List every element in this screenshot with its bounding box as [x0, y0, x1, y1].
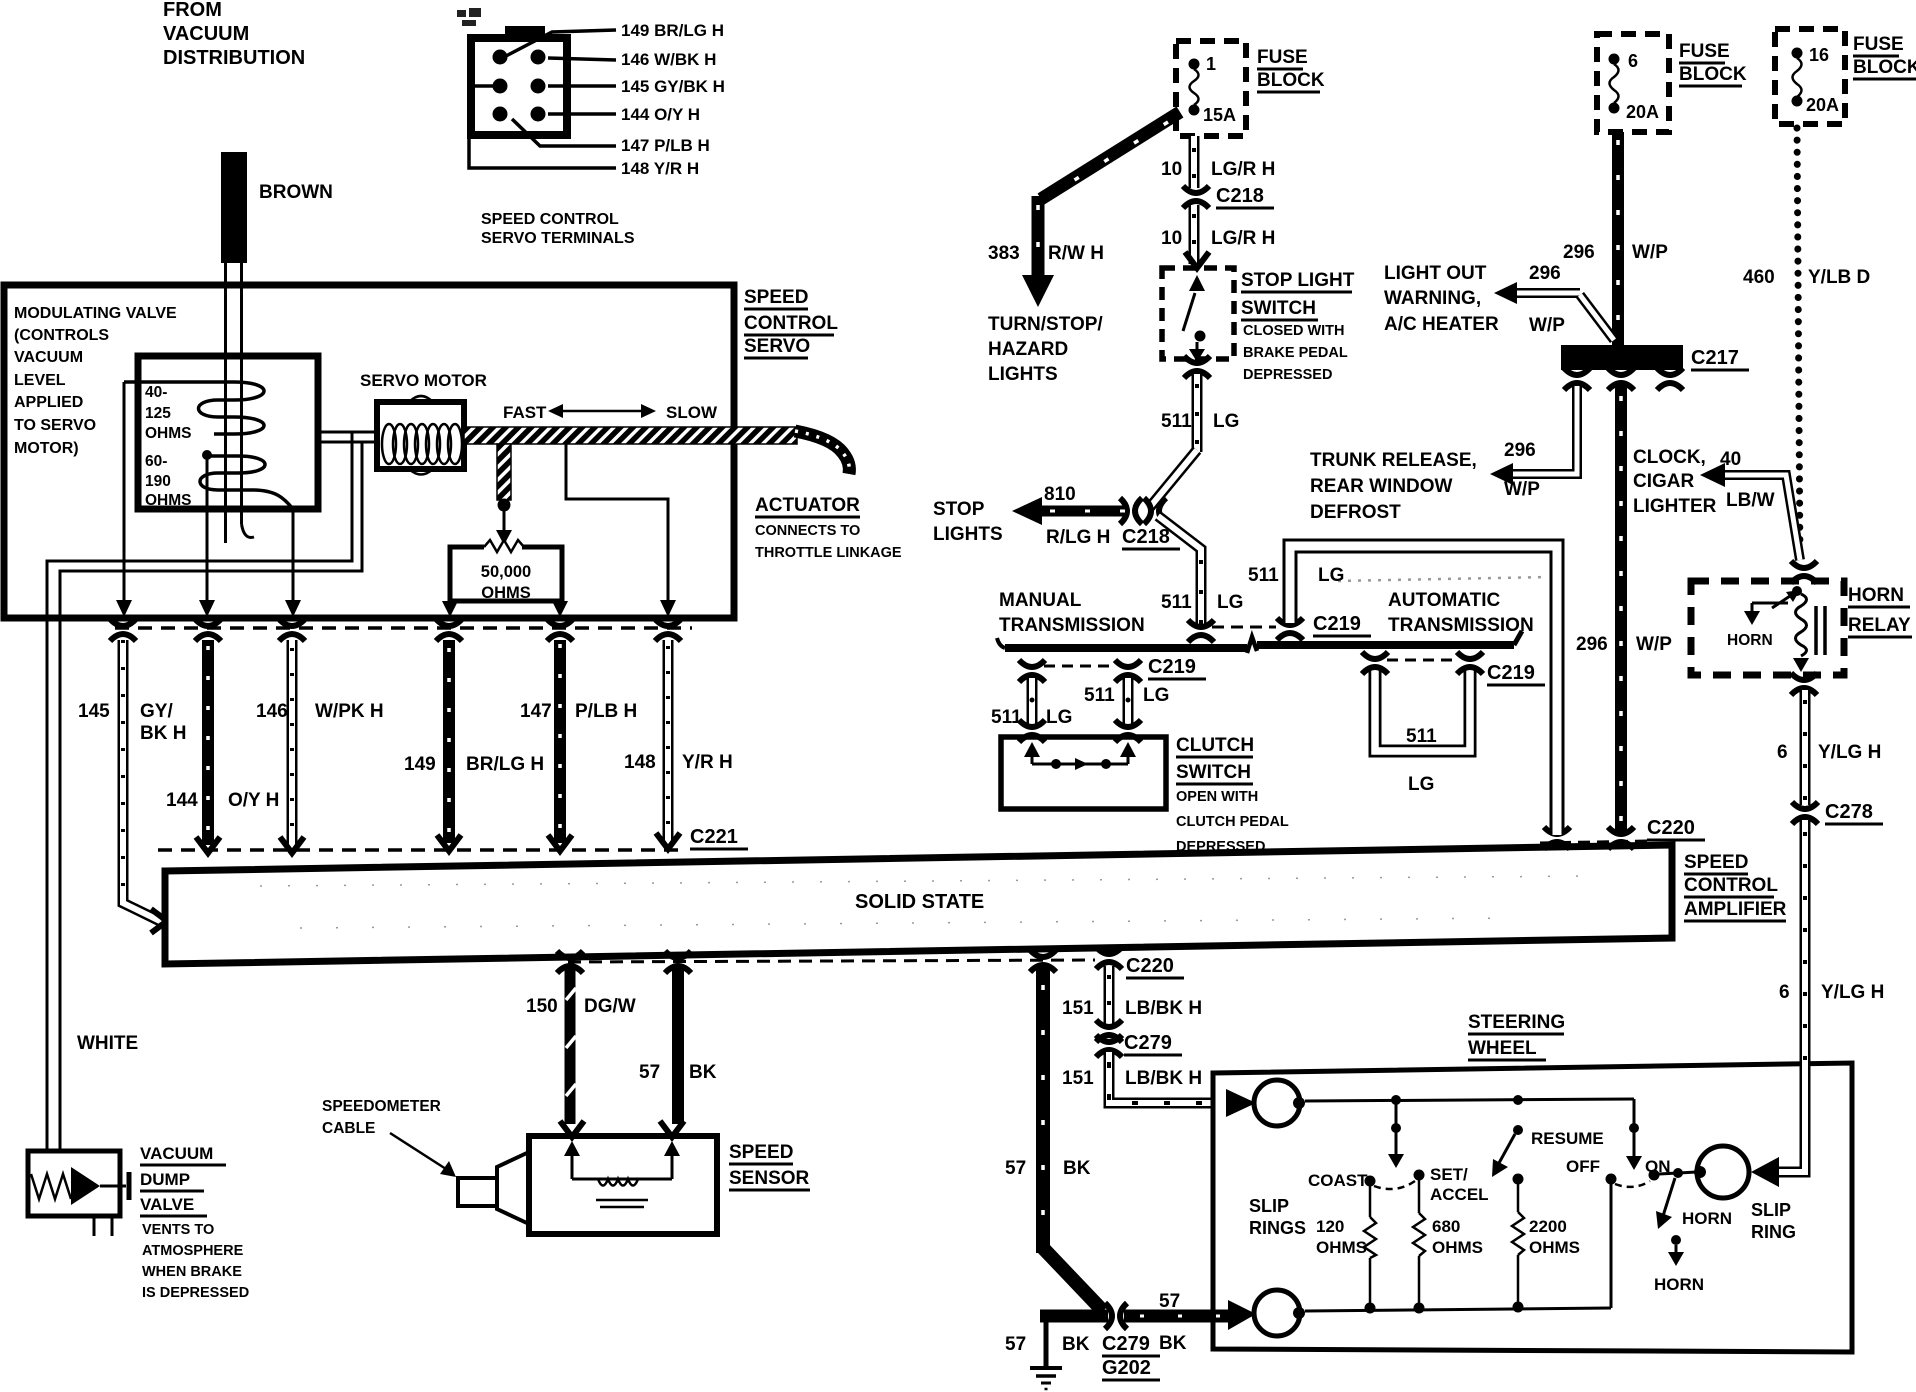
svg-text:57: 57 — [1159, 1291, 1180, 1312]
wire 10 LG/R upper — [1189, 136, 1200, 188]
amplifier entry w149 — [437, 835, 461, 851]
svg-text:OHMS: OHMS — [481, 584, 531, 602]
amplifier entry w146 — [280, 837, 304, 853]
wire 149 BR/LG H — [443, 640, 455, 843]
label OPEN WITH CLUTCH PEDAL DEPRESSED — [1176, 789, 1289, 855]
right slip ring — [1694, 1146, 1749, 1198]
svg-text:C219: C219 — [1313, 613, 1361, 635]
clutch switch contacts — [1024, 742, 1136, 770]
svg-text:HORN: HORN — [1682, 1209, 1732, 1228]
svg-text:CONNECTS TO: CONNECTS TO — [755, 523, 860, 539]
labels 460 Y/LB D — [1743, 267, 1870, 288]
C221 dashed connector line — [115, 626, 692, 630]
wire 145 inside servo — [123, 382, 126, 601]
svg-text:W/P: W/P — [1636, 634, 1672, 655]
svg-text:SPEED: SPEED — [1684, 852, 1748, 873]
C220 bowtie w151 — [1096, 947, 1122, 969]
svg-text:383: 383 — [988, 243, 1020, 264]
C219 dashed segment — [1212, 626, 1276, 629]
amplifier noise speckle — [260, 876, 1600, 928]
svg-text:6: 6 — [1779, 982, 1790, 1003]
C221 top dashed at amplifier — [158, 848, 680, 852]
top rail — [1305, 1095, 1634, 1105]
svg-text:OHMS: OHMS — [1316, 1238, 1367, 1257]
svg-text:SERVO TERMINALS: SERVO TERMINALS — [481, 230, 635, 247]
svg-text:60-: 60- — [145, 453, 167, 470]
svg-text:O/Y H: O/Y H — [228, 790, 279, 811]
modulating valve inner box — [138, 356, 318, 509]
svg-text:RING: RING — [1751, 1222, 1796, 1242]
labels 40 LB/W — [1720, 449, 1775, 511]
svg-text:511: 511 — [1161, 411, 1192, 432]
svg-text:CLUTCH: CLUTCH — [1176, 735, 1254, 756]
pin 146 top-right — [531, 50, 546, 65]
label C220 bottom — [1126, 955, 1184, 978]
label 511 LG upper — [1161, 411, 1239, 432]
arrow into top slip ring — [1226, 1089, 1256, 1117]
top slip ring — [1254, 1080, 1305, 1126]
wire 296 to trunk release — [1490, 386, 1577, 485]
svg-text:120: 120 — [1316, 1217, 1344, 1236]
svg-text:CIGAR: CIGAR — [1633, 471, 1695, 492]
svg-text:149 BR/LG H: 149 BR/LG H — [621, 21, 724, 40]
svg-text:OPEN WITH: OPEN WITH — [1176, 789, 1258, 805]
label C220 top — [1647, 817, 1705, 840]
steering wheel box — [1213, 1063, 1852, 1352]
wire 57 BK diagonal — [1043, 1248, 1103, 1311]
labels 10 LG/R H — [1161, 159, 1275, 249]
fuse block 2 — [1597, 34, 1669, 132]
label STOP LIGHT SWITCH — [1241, 270, 1355, 319]
svg-text:57: 57 — [639, 1062, 660, 1083]
labels 296 W/P trunk — [1504, 440, 1540, 500]
svg-text:VALVE: VALVE — [140, 1195, 194, 1214]
labels 151 LB/BK H — [1062, 998, 1202, 1089]
speedometer cable cone — [458, 1152, 529, 1224]
svg-text:P/LB H: P/LB H — [575, 701, 637, 722]
wire 150 DG/W — [566, 968, 576, 1124]
wire 511 below switch — [1192, 374, 1203, 452]
label C278 — [1825, 801, 1883, 824]
svg-text:6: 6 — [1777, 742, 1788, 763]
modulating valve coil lower — [200, 456, 293, 509]
C221 bowtie w146 — [279, 619, 305, 641]
wire to label 147 — [512, 119, 616, 146]
svg-text:FROM: FROM — [163, 0, 222, 21]
svg-text:151: 151 — [1062, 998, 1094, 1019]
label FUSE BLOCK 3 — [1853, 34, 1916, 78]
label SPEED CONTROL AMPLIFIER — [1684, 852, 1787, 920]
wire 151 upper — [1104, 966, 1115, 1024]
servo motor — [377, 402, 464, 469]
svg-text:CLOSED WITH: CLOSED WITH — [1243, 323, 1345, 339]
svg-text:C279: C279 — [1102, 1333, 1150, 1355]
fuse 2 element — [1609, 54, 1620, 114]
svg-text:C217: C217 — [1691, 347, 1739, 369]
svg-text:HORN: HORN — [1848, 585, 1904, 606]
fuse 3 element — [1792, 48, 1803, 107]
speed control servo box — [4, 285, 734, 618]
svg-text:SPEED: SPEED — [729, 1142, 793, 1163]
wire to label 149 — [506, 30, 616, 56]
svg-text:296: 296 — [1563, 242, 1595, 263]
svg-text:Y/LG H: Y/LG H — [1821, 982, 1884, 1003]
automatic transmission U loop — [1375, 666, 1470, 751]
horn stub arrow — [1668, 1235, 1684, 1266]
svg-text:LG: LG — [1213, 411, 1239, 432]
junction dot — [202, 450, 212, 460]
svg-text:Y/R H: Y/R H — [682, 752, 733, 773]
horn relay armature — [1744, 586, 1802, 625]
wire to label 146 — [548, 58, 616, 60]
terminal labels — [621, 21, 725, 178]
ground G202 symbol — [1030, 1368, 1062, 1389]
dump valve plunger tip — [71, 1167, 100, 1205]
labels 810 R/LG H — [1044, 484, 1110, 548]
C279 bowtie on 57 wire — [1105, 1303, 1127, 1329]
wire 296 fuse2 to C217 — [1612, 132, 1624, 345]
svg-text:511: 511 — [1248, 565, 1279, 586]
actuator rod (hatched) — [464, 427, 797, 444]
stop light switch box — [1162, 268, 1234, 359]
svg-text:CABLE: CABLE — [322, 1120, 375, 1137]
svg-text:144 O/Y H: 144 O/Y H — [621, 105, 700, 124]
svg-text:2200: 2200 — [1529, 1217, 1567, 1236]
svg-text:146: 146 — [256, 701, 288, 722]
label C219 top — [1313, 613, 1371, 636]
labels 511 LG auto — [1406, 726, 1437, 795]
COAST/SET branch drop — [1388, 1100, 1404, 1168]
svg-text:DISTRIBUTION: DISTRIBUTION — [163, 47, 305, 69]
svg-text:460: 460 — [1743, 267, 1775, 288]
svg-text:16: 16 — [1809, 45, 1829, 65]
label AUTOMATIC TRANSMISSION — [1388, 590, 1534, 636]
wire to label 145 — [548, 84, 616, 88]
svg-text:W/P: W/P — [1632, 242, 1668, 263]
svg-text:DEPRESSED: DEPRESSED — [1243, 367, 1332, 383]
arrow into right slip ring — [1751, 1157, 1779, 1187]
labels 6 20A — [1626, 51, 1659, 122]
wire 810 arrow to stop lights — [1012, 497, 1125, 525]
amplifier entry w145 side — [151, 909, 167, 933]
labels 1 15A — [1203, 54, 1236, 125]
svg-text:G202: G202 — [1102, 1357, 1151, 1379]
wire 147 P/LB H — [554, 640, 566, 843]
label MANUAL TRANSMISSION — [999, 590, 1145, 636]
C220 bottom dashed — [568, 960, 1095, 962]
svg-text:FUSE: FUSE — [1257, 47, 1308, 68]
svg-text:REAR WINDOW: REAR WINDOW — [1310, 476, 1453, 497]
C278 bowtie — [1792, 802, 1818, 824]
wire 57 BK right vertical — [1036, 968, 1050, 1253]
labels OFF ON — [1566, 1157, 1671, 1176]
label CLOCK CIGAR LIGHTER — [1633, 447, 1717, 517]
off-on wiper dashed — [1615, 1181, 1650, 1187]
ON branch drop — [1626, 1099, 1642, 1170]
svg-text:MOTOR): MOTOR) — [14, 440, 79, 457]
coast-set wiper dashed — [1374, 1181, 1415, 1189]
C221 bowtie w149 — [436, 619, 462, 641]
svg-text:20A: 20A — [1626, 102, 1659, 122]
svg-text:147: 147 — [520, 701, 552, 722]
svg-text:125: 125 — [145, 405, 171, 422]
svg-text:C219: C219 — [1148, 656, 1196, 678]
label FUSE BLOCK 1 — [1257, 47, 1325, 91]
horn relay bowtie bottom — [1791, 673, 1817, 695]
svg-text:FUSE: FUSE — [1679, 41, 1730, 62]
svg-text:SERVO: SERVO — [744, 336, 810, 357]
svg-text:296: 296 — [1529, 263, 1561, 284]
wire 296 arrow to light out warning — [1494, 282, 1614, 340]
labels 6 Y/LG H lower — [1779, 982, 1884, 1003]
svg-text:LG: LG — [1143, 685, 1169, 706]
SET/ACCEL contact — [1414, 1170, 1425, 1181]
label MODULATING VALVE paragraph — [14, 305, 177, 457]
C217 bowties — [1564, 368, 1683, 390]
svg-text:CLOCK,: CLOCK, — [1633, 447, 1706, 468]
svg-text:SERVO MOTOR: SERVO MOTOR — [360, 371, 487, 390]
svg-text:MANUAL: MANUAL — [999, 590, 1082, 611]
svg-text:HORN: HORN — [1654, 1275, 1704, 1294]
svg-text:APPLIED: APPLIED — [14, 394, 83, 411]
C219 auto bowties and dashes — [1362, 652, 1483, 674]
svg-text:10: 10 — [1161, 228, 1182, 249]
svg-text:DEPRESSED: DEPRESSED — [1176, 839, 1265, 855]
svg-text:W/P: W/P — [1529, 315, 1565, 336]
wire 57 BK left — [672, 968, 684, 1124]
wire 6 Y/LG upper — [1800, 690, 1811, 805]
svg-text:C221: C221 — [690, 826, 738, 848]
speed control amplifier box SOLID STATE — [165, 845, 1672, 964]
label CLUTCH SWITCH — [1176, 735, 1254, 783]
wire 511 from C218 to C219 — [1158, 516, 1201, 624]
C279 double bowtie — [1096, 1020, 1122, 1057]
label SPEED CONTROL SERVO — [744, 287, 838, 357]
svg-text:TURN/STOP/: TURN/STOP/ — [988, 314, 1103, 335]
horn relay coil exit arrow — [1793, 658, 1809, 672]
bowtie C219 right — [1277, 618, 1303, 640]
svg-text:145: 145 — [78, 701, 110, 722]
svg-text:SLIP: SLIP — [1249, 1196, 1289, 1216]
dump valve spring — [31, 1174, 71, 1199]
label C219 manual — [1148, 656, 1206, 679]
svg-text:BLOCK: BLOCK — [1679, 64, 1747, 85]
wire labels row 2 — [404, 752, 733, 775]
wire 146 W/PK H — [287, 640, 298, 845]
svg-text:MODULATING VALVE: MODULATING VALVE — [14, 305, 177, 322]
labels 511 LG right — [1248, 565, 1344, 586]
arm end dot — [498, 499, 511, 512]
pin 148 mid-left — [493, 79, 508, 94]
label VENTS TO ATMOSPHERE WHEN BRAKE IS DEPRESSED — [142, 1222, 249, 1301]
label C218 lower — [1122, 526, 1180, 549]
svg-text:SOLID STATE: SOLID STATE — [855, 891, 984, 913]
svg-text:57: 57 — [1005, 1158, 1026, 1179]
svg-text:LB/W: LB/W — [1726, 490, 1775, 511]
wire 511 diagonal to C218 — [1150, 450, 1197, 507]
svg-text:OHMS: OHMS — [1529, 1238, 1580, 1257]
svg-text:LIGHTS: LIGHTS — [988, 364, 1058, 385]
svg-text:C218: C218 — [1122, 526, 1170, 548]
svg-text:RESUME: RESUME — [1531, 1129, 1604, 1148]
labels 150 DG/W — [526, 996, 636, 1017]
label SPEED SENSOR — [729, 1142, 810, 1189]
arrow to 50000 ohms — [496, 511, 512, 545]
C218 inline double bowtie — [1120, 498, 1166, 524]
wire 10 LG/R lower — [1189, 205, 1200, 264]
svg-text:Y/LG H: Y/LG H — [1818, 742, 1881, 763]
svg-text:150: 150 — [526, 996, 558, 1017]
wire 383 diagonal — [1041, 112, 1180, 199]
ground drop wire — [1044, 1316, 1049, 1368]
speedometer pointer arrow — [390, 1133, 456, 1177]
pin 145 mid-right — [531, 79, 546, 94]
label SPEED CONTROL SERVO TERMINALS — [481, 211, 635, 247]
svg-text:FAST: FAST — [503, 403, 547, 422]
svg-text:DEFROST: DEFROST — [1310, 502, 1401, 523]
label HORN RELAY — [1848, 585, 1911, 636]
svg-text:40-: 40- — [145, 384, 167, 401]
svg-text:(CONTROLS: (CONTROLS — [14, 327, 109, 344]
svg-text:810: 810 — [1044, 484, 1076, 505]
svg-text:VENTS TO: VENTS TO — [142, 1222, 214, 1238]
stop light switch contacts — [1183, 275, 1206, 362]
resistor 680 ohms — [1413, 1180, 1425, 1306]
svg-text:W/PK H: W/PK H — [315, 701, 384, 722]
wire 149 inside servo — [442, 601, 458, 617]
label SET/ACCEL — [1430, 1165, 1489, 1204]
svg-text:LIGHTER: LIGHTER — [1633, 496, 1717, 517]
label STOP LIGHTS — [933, 499, 1003, 545]
wire 151 lower to steering wheel — [1109, 1052, 1213, 1103]
svg-text:AUTOMATIC: AUTOMATIC — [1388, 590, 1501, 611]
white vacuum tube — [47, 432, 362, 1151]
svg-text:CONTROL: CONTROL — [1684, 875, 1778, 896]
svg-text:511: 511 — [1406, 726, 1437, 747]
svg-text:296: 296 — [1504, 440, 1536, 461]
svg-text:STEERING: STEERING — [1468, 1012, 1565, 1033]
label CLOSED WITH BRAKE PEDAL DEPRESSED — [1243, 323, 1348, 383]
svg-text:RINGS: RINGS — [1249, 1218, 1306, 1238]
label 40-125 OHMS / 60-190 OHMS — [145, 384, 192, 509]
svg-text:WHEEL: WHEEL — [1468, 1038, 1537, 1059]
wire 6 inside steering box — [1779, 1063, 1805, 1172]
pin 149 top-left — [493, 50, 508, 65]
svg-text:511: 511 — [1084, 685, 1115, 706]
label 511 LG mid — [1161, 592, 1243, 613]
svg-text:BK H: BK H — [140, 723, 186, 744]
horn relay bowtie top — [1791, 561, 1817, 583]
C221 bowtie w147 — [547, 619, 573, 641]
label C221 — [690, 826, 748, 849]
label C219 auto — [1487, 662, 1545, 685]
wire 146 inside servo — [292, 509, 295, 601]
wire 148 inside servo — [566, 444, 676, 617]
svg-text:LIGHT OUT: LIGHT OUT — [1384, 263, 1487, 284]
svg-text:LG: LG — [1217, 592, 1243, 613]
svg-text:145 GY/BK H: 145 GY/BK H — [621, 77, 725, 96]
actuator vertical arm (hatched) — [497, 444, 511, 500]
svg-text:LB/BK H: LB/BK H — [1125, 998, 1202, 1019]
C220 bowtie 511 — [1544, 827, 1570, 849]
svg-text:C279: C279 — [1124, 1032, 1172, 1054]
arrow into bottom slip ring — [1228, 1300, 1256, 1330]
svg-text:SPEED: SPEED — [744, 287, 808, 308]
svg-text:BK: BK — [1063, 1158, 1091, 1179]
wire 145 GY/BK H — [123, 640, 160, 921]
svg-text:A/C HEATER: A/C HEATER — [1384, 314, 1499, 335]
svg-text:148 Y/R H: 148 Y/R H — [621, 159, 699, 178]
label LIGHT OUT WARNING A/C HEATER — [1384, 263, 1499, 335]
svg-text:TRUNK RELEASE,: TRUNK RELEASE, — [1310, 450, 1477, 471]
wire to label 148 — [469, 86, 616, 168]
svg-text:511: 511 — [991, 707, 1022, 728]
label VACUUM DUMP VALVE — [140, 1144, 213, 1214]
svg-text:57: 57 — [1005, 1334, 1026, 1355]
transmission bus bar — [997, 631, 1522, 653]
resistor 2200 ohms — [1512, 1174, 1524, 1307]
label C279 — [1124, 1032, 1182, 1055]
50000 ohms box — [450, 540, 562, 601]
labels 511 LG manual — [991, 685, 1169, 728]
svg-text:TO SERVO: TO SERVO — [14, 417, 96, 434]
wire 511 LG up and over to C220 — [1290, 546, 1557, 835]
pin 144 bottom-right — [531, 107, 546, 122]
svg-text:1: 1 — [1206, 54, 1216, 74]
labels 296 W/P lower — [1576, 634, 1672, 655]
C220 bowtie 296 — [1608, 827, 1634, 849]
svg-text:LG: LG — [1046, 707, 1072, 728]
scan noise above automatic — [1338, 577, 1548, 581]
svg-text:C219: C219 — [1487, 662, 1535, 684]
wire 144 O/Y H — [202, 640, 214, 845]
label FROM VACUUM DISTRIBUTION — [163, 0, 305, 69]
svg-text:40: 40 — [1720, 449, 1741, 470]
svg-text:LG/R H: LG/R H — [1211, 228, 1275, 249]
svg-text:LB/BK H: LB/BK H — [1125, 1068, 1202, 1089]
sensor entry w57 — [660, 1121, 684, 1156]
svg-text:190: 190 — [145, 473, 171, 490]
amplifier entry w144 — [196, 837, 220, 853]
fuse block 3 — [1775, 29, 1845, 124]
RESUME switch arm — [1492, 1125, 1523, 1177]
svg-text:SPEED CONTROL: SPEED CONTROL — [481, 211, 619, 228]
svg-text:C218: C218 — [1216, 185, 1264, 207]
C221 bowtie w148 — [655, 619, 681, 641]
svg-text:Y/LB D: Y/LB D — [1808, 267, 1870, 288]
C219 manual bowties and dashes — [1019, 660, 1141, 682]
svg-text:CLUTCH PEDAL: CLUTCH PEDAL — [1176, 814, 1289, 830]
wire 460 dotted — [1797, 128, 1800, 560]
label TRUNK RELEASE REAR WINDOW DEFROST — [1310, 450, 1477, 523]
labels 383 R/W H — [988, 243, 1104, 264]
fuse 1 element — [1189, 59, 1200, 116]
svg-text:OHMS: OHMS — [145, 425, 192, 442]
wire 144 inside servo — [206, 455, 209, 601]
label SLIP RING — [1751, 1200, 1796, 1242]
horn relay contact plates — [1816, 606, 1825, 655]
label 50,000 OHMS — [481, 563, 531, 602]
svg-text:RELAY: RELAY — [1848, 615, 1911, 636]
svg-text:ATMOSPHERE: ATMOSPHERE — [142, 1243, 244, 1259]
svg-text:OHMS: OHMS — [1432, 1238, 1483, 1257]
svg-text:149: 149 — [404, 754, 436, 775]
svg-text:SLOW: SLOW — [666, 403, 718, 422]
svg-text:ACTUATOR: ACTUATOR — [755, 495, 860, 516]
label SLIP RINGS — [1249, 1196, 1306, 1238]
amplifier entry w148 — [656, 833, 680, 849]
svg-text:FUSE: FUSE — [1853, 34, 1904, 55]
